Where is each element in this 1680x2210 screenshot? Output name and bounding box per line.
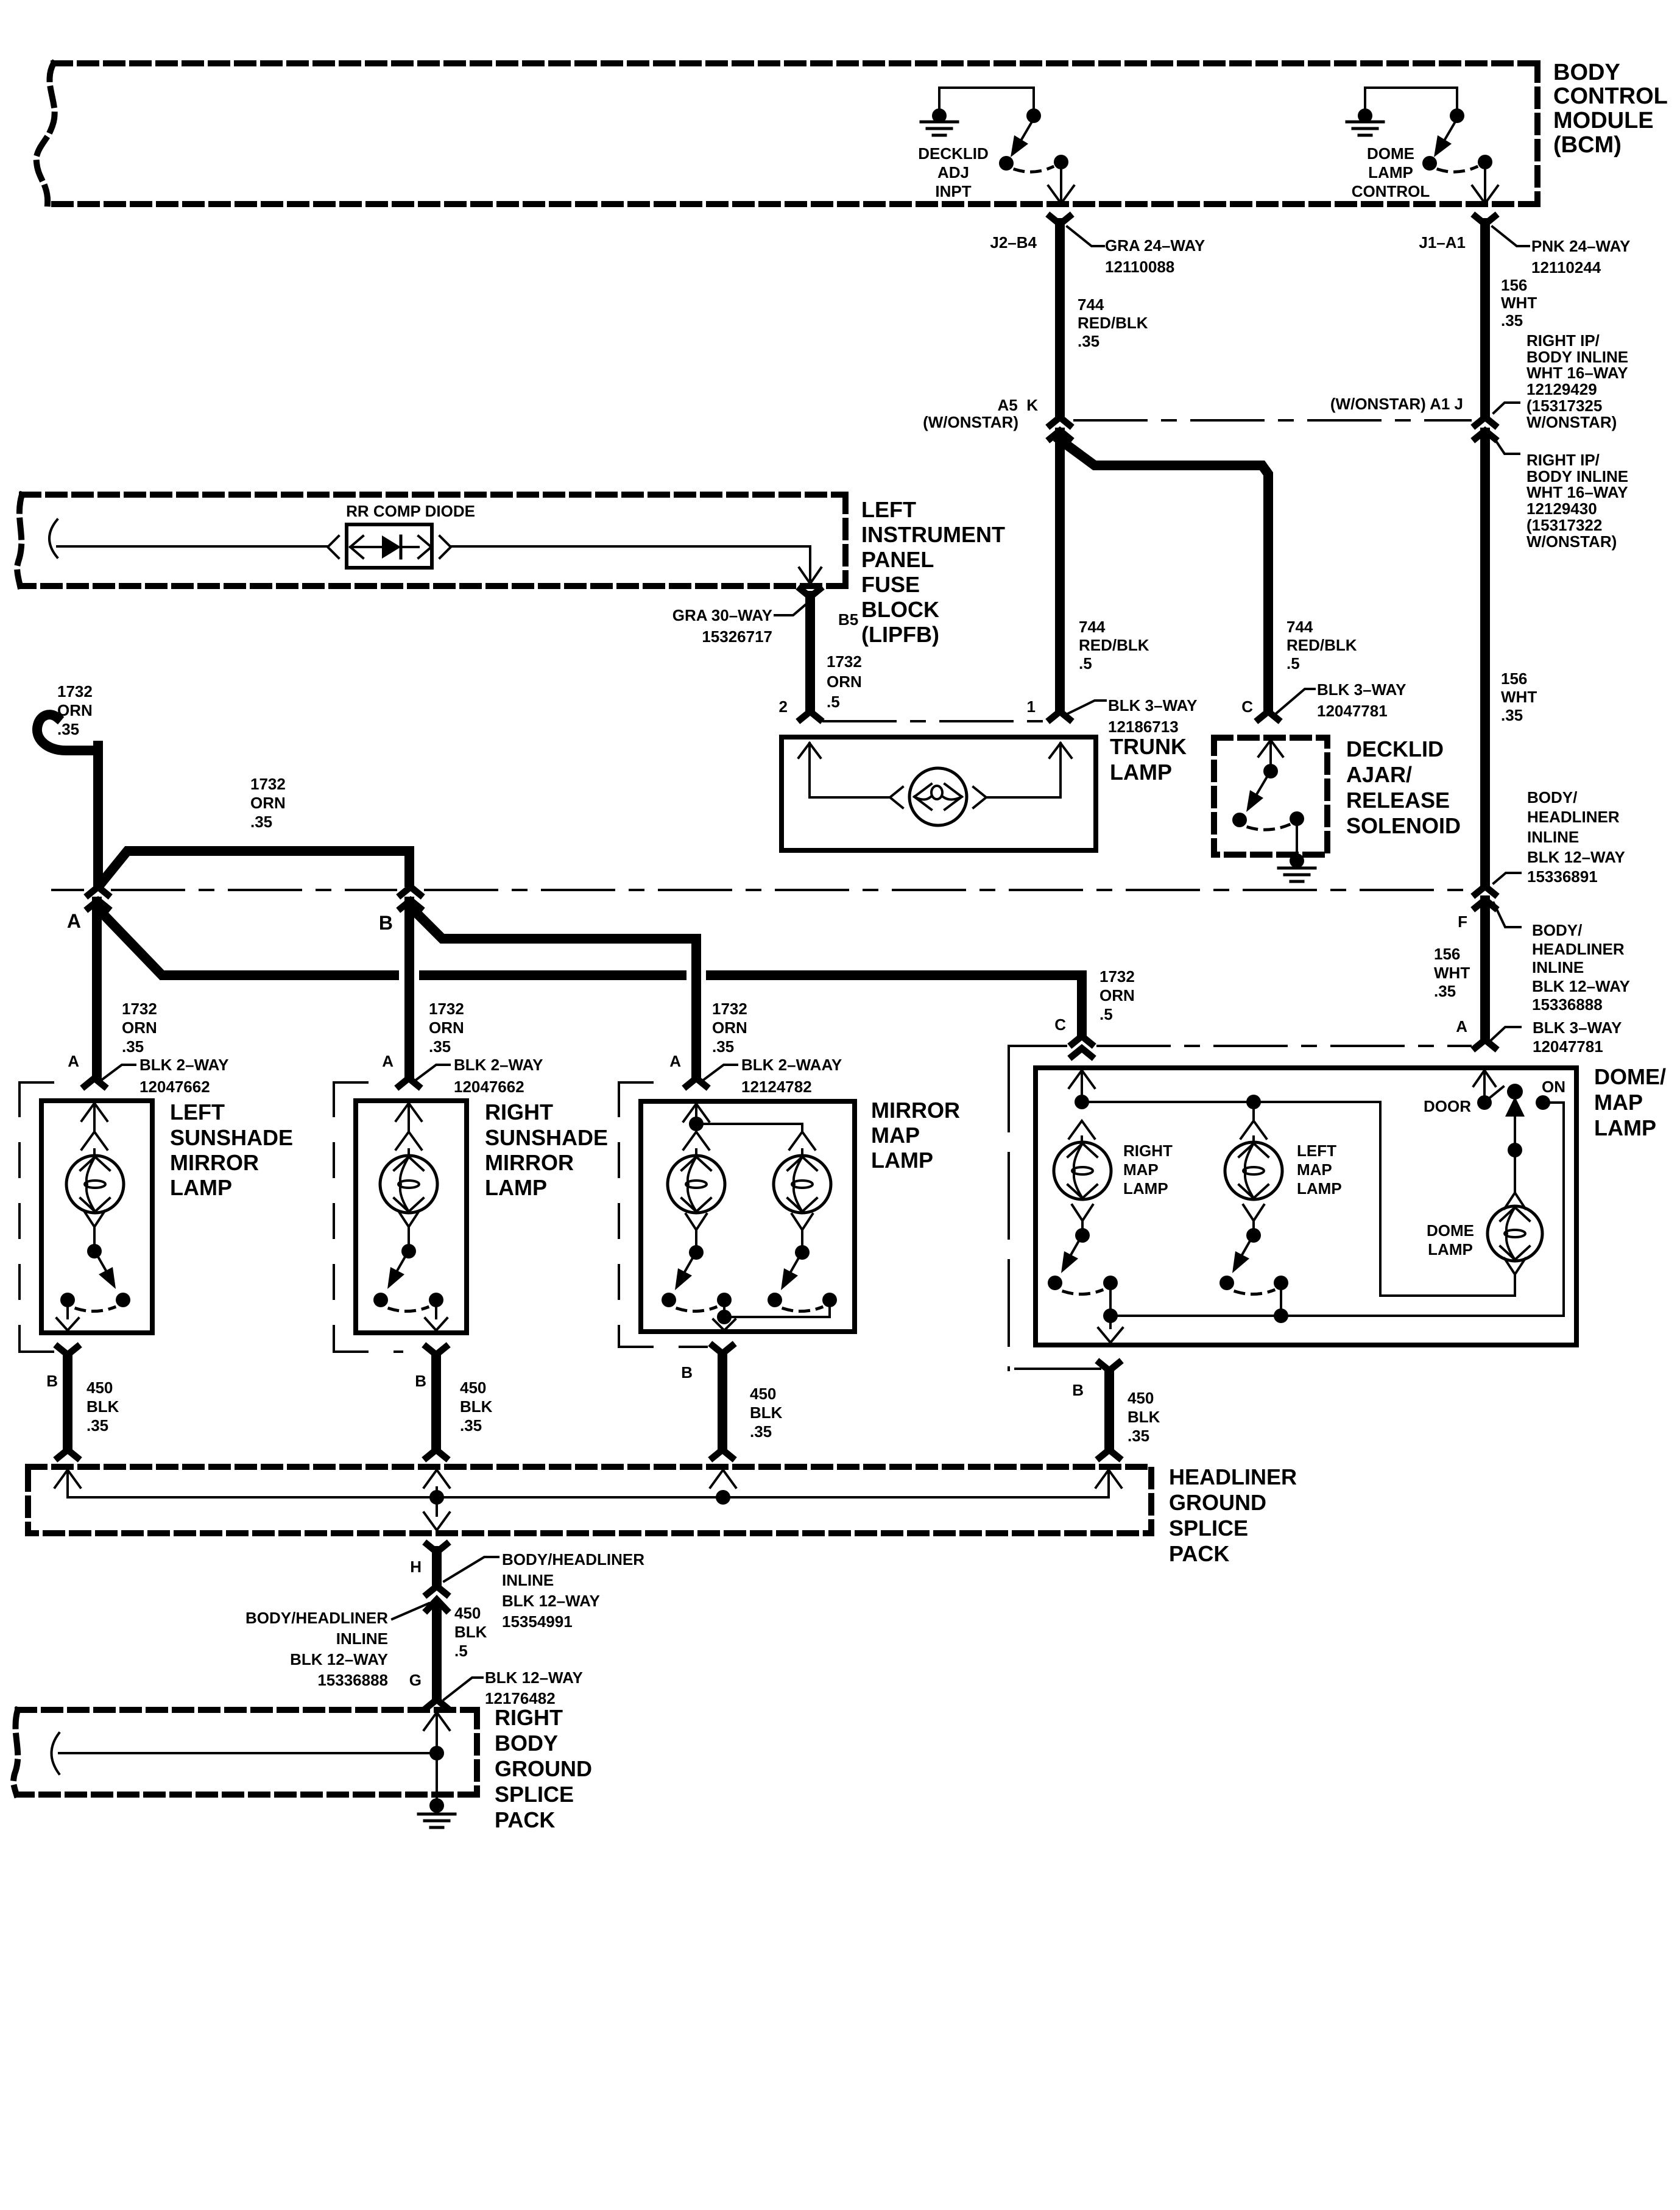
svg-text:WHT 16–WAY: WHT 16–WAY <box>1526 483 1628 501</box>
svg-text:12047781: 12047781 <box>1317 702 1388 720</box>
wire: internal ground bus <box>1110 1103 1564 1316</box>
svg-text:BLK 3–WAY: BLK 3–WAY <box>1317 680 1406 699</box>
pin arrow trunk lamp pin 1 <box>1050 743 1071 758</box>
svg-text:ORN: ORN <box>712 1019 747 1037</box>
phantom connector line at W/ONSTAR inline <box>1075 419 1470 422</box>
svg-text:.35: .35 <box>1434 982 1456 1000</box>
connector boundary (dome/map lamp, dashed bracket) <box>1008 1046 1010 1370</box>
svg-text:.35: .35 <box>86 1416 108 1435</box>
pin arrow down at LIPFB border <box>799 568 821 584</box>
svg-text:B5: B5 <box>838 610 858 629</box>
wire 744 RED/BLK .35 (J2-B4 down to inline) <box>1055 223 1065 416</box>
svg-text:.35: .35 <box>1501 706 1523 724</box>
svg-text:INLINE: INLINE <box>1532 958 1584 976</box>
wire inside LIPFB to RR COMP DIODE <box>57 545 328 548</box>
svg-text:GRA 24–WAY: GRA 24–WAY <box>1105 236 1205 255</box>
svg-text:A: A <box>67 910 81 932</box>
svg-text:TRUNK: TRUNK <box>1110 734 1187 759</box>
wire branch to decklid solenoid (744 RED/BLK .5) <box>1060 440 1268 710</box>
callout + label BLK 2-WAY 12047662 (left) <box>102 1065 135 1079</box>
lamp: RIGHT MAP LAMP bulb <box>1054 1142 1111 1199</box>
svg-text:.35: .35 <box>57 720 79 738</box>
inline break F at body/headliner inline <box>1475 886 1495 894</box>
svg-text:BLK 12–WAY: BLK 12–WAY <box>485 1668 583 1687</box>
svg-text:ORN: ORN <box>827 673 862 691</box>
svg-text:BLK 2–WAY: BLK 2–WAY <box>139 1056 228 1074</box>
svg-text:MIRROR: MIRROR <box>871 1098 960 1123</box>
svg-text:AJAR/: AJAR/ <box>1346 762 1412 787</box>
svg-text:.5: .5 <box>827 693 840 711</box>
svg-text:2: 2 <box>779 697 788 716</box>
svg-text:.5: .5 <box>1099 1005 1113 1023</box>
svg-text:WHT: WHT <box>1501 294 1537 312</box>
pin arrow into solenoid switch <box>1258 740 1283 757</box>
callout + label BLK 2-WAAY 12124782 <box>704 1065 737 1079</box>
svg-text:CONTROL: CONTROL <box>1352 182 1430 200</box>
module box: HEADLINER GROUND SPLICE PACK (dashed) <box>28 1467 1151 1533</box>
wire 450 BLK .35 (dome/map) <box>1104 1372 1114 1449</box>
svg-text:450: 450 <box>86 1379 113 1397</box>
wire from diode to LIPFB output B5 <box>451 546 810 580</box>
connector boundary (mirror map lamp, dashed bracket) <box>619 1081 679 1084</box>
svg-text:BLOCK: BLOCK <box>861 597 939 622</box>
svg-text:LAMP: LAMP <box>485 1175 547 1200</box>
svg-text:ORN: ORN <box>429 1019 464 1037</box>
wire: switch feed stub <box>1032 88 1035 111</box>
svg-text:MODULE: MODULE <box>1553 108 1654 133</box>
callout to BODY/HEADLINER 15354991 <box>444 1557 498 1581</box>
svg-text:(W/ONSTAR) A1 J: (W/ONSTAR) A1 J <box>1330 395 1463 413</box>
switch (left sunshade lamp) <box>84 1211 105 1227</box>
svg-text:W/ONSTAR): W/ONSTAR) <box>1526 413 1617 431</box>
switch 2 (mirror map lamp) <box>792 1214 813 1230</box>
wire stub curl (LIPFB feed) <box>49 520 57 557</box>
svg-text:A: A <box>68 1052 79 1070</box>
svg-text:LAMP: LAMP <box>1110 760 1172 785</box>
svg-text:.35: .35 <box>1128 1427 1149 1445</box>
wire 1732 ORN .35 down to inline A <box>93 746 103 884</box>
wire: dome lamp feed from selector <box>1514 1114 1516 1143</box>
callout line to PNK 24-WAY <box>1492 227 1529 246</box>
wire to lamp output B (right) <box>435 1307 437 1318</box>
svg-text:B: B <box>46 1372 58 1390</box>
svg-text:BLK 12–WAY: BLK 12–WAY <box>1532 977 1630 995</box>
svg-text:HEADLINER: HEADLINER <box>1169 1464 1297 1489</box>
connector J2-B4 break <box>1050 216 1070 224</box>
svg-text:GROUND: GROUND <box>495 1756 592 1781</box>
svg-text:.5: .5 <box>1079 654 1092 673</box>
svg-text:INLINE: INLINE <box>336 1629 388 1648</box>
svg-text:WHT 16–WAY: WHT 16–WAY <box>1526 364 1628 382</box>
svg-text:.5: .5 <box>454 1642 468 1660</box>
svg-text:RIGHT: RIGHT <box>1123 1142 1173 1160</box>
splice bus (headliner ground) <box>55 1470 80 1488</box>
svg-text:.35: .35 <box>1501 311 1523 330</box>
svg-text:SUNSHADE: SUNSHADE <box>485 1125 608 1150</box>
svg-text:1732: 1732 <box>827 652 862 671</box>
component box: MIRROR MAP LAMP <box>641 1101 855 1332</box>
svg-text:BODY: BODY <box>495 1731 558 1756</box>
svg-text:B: B <box>415 1372 426 1390</box>
svg-text:SUNSHADE: SUNSHADE <box>170 1125 293 1150</box>
break chevron right of trunk bulb <box>973 787 986 808</box>
svg-text:ORN: ORN <box>122 1019 157 1037</box>
svg-text:A5 K: A5 K <box>998 396 1039 414</box>
wire to ground <box>436 1753 438 1806</box>
svg-text:BLK 12–WAY: BLK 12–WAY <box>290 1650 388 1668</box>
wire: solenoid switch to ground <box>1296 826 1298 861</box>
svg-text:12047781: 12047781 <box>1533 1037 1603 1056</box>
inline break B <box>401 887 420 895</box>
diode D1: RR COMP DIODE <box>347 524 432 568</box>
pin arrows and feed (mirror map lamp) <box>683 1104 709 1121</box>
callout line GRA 30-WAY <box>775 605 805 615</box>
switch wiper arrow (DOME) <box>1445 122 1455 139</box>
svg-text:.35: .35 <box>712 1037 734 1056</box>
svg-text:PACK: PACK <box>1169 1541 1229 1566</box>
inline break (W/ONSTAR) A1 | J <box>1475 417 1495 425</box>
svg-text:744: 744 <box>1286 618 1313 636</box>
svg-text:BODY/HEADLINER: BODY/HEADLINER <box>245 1609 388 1627</box>
svg-text:1732: 1732 <box>1099 967 1135 986</box>
wire 156 WHT .35 (down to dome/map lamp pin A) <box>1480 900 1490 1039</box>
callout + label BLK 2-WAY 12047662 (right) <box>417 1065 450 1079</box>
break chevron left of trunk bulb <box>890 787 903 808</box>
svg-text:SPLICE: SPLICE <box>1169 1516 1248 1541</box>
svg-text:INLINE: INLINE <box>502 1571 554 1589</box>
svg-text:156: 156 <box>1434 945 1460 963</box>
component box: LEFT SUNSHADE MIRROR LAMP <box>41 1101 152 1333</box>
lamp: mirror map bulb 1 <box>668 1156 725 1213</box>
wire branch over to inline B <box>101 851 409 883</box>
callout to BODY/HEADLINER 15336891 <box>1494 873 1520 883</box>
wire hook: 1732 ORN continuation curl <box>37 715 98 750</box>
svg-text:RELEASE: RELEASE <box>1346 788 1450 813</box>
switch: DOME DOOR/ON selector <box>1474 1070 1495 1086</box>
pin arrow trunk lamp pin 2 <box>799 743 821 758</box>
break: mirror map lamp pin B <box>713 1346 732 1354</box>
svg-text:A: A <box>1456 1017 1467 1036</box>
module box: LEFT INSTRUMENT PANEL FUSE BLOCK (LIPFB), dashed outline <box>22 492 845 498</box>
pin arrows and feed (dome/map pin C) <box>1069 1070 1095 1088</box>
connector boundary (right sunshade lamp, dashed bracket) <box>334 1081 394 1084</box>
svg-text:ADJ: ADJ <box>937 163 969 182</box>
svg-text:LEFT: LEFT <box>170 1100 225 1124</box>
svg-text:C: C <box>1054 1015 1066 1034</box>
svg-text:1732: 1732 <box>712 1000 747 1018</box>
wire 156 WHT .35 (down to body/headliner inline) <box>1480 432 1490 884</box>
svg-text:BLK 2–WAY: BLK 2–WAY <box>454 1056 543 1074</box>
break: left sunshade lamp pin A <box>85 1078 104 1086</box>
svg-text:W/ONSTAR): W/ONSTAR) <box>1526 532 1617 551</box>
svg-text:H: H <box>410 1558 422 1576</box>
wire 450 BLK .35 (left) <box>63 1356 72 1449</box>
wire: switch outputs joined to pin B <box>723 1307 725 1317</box>
callout to BLK 12-WAY 12176482 <box>444 1678 482 1700</box>
wire: internal feed bus <box>1082 1102 1514 1296</box>
svg-text:HEADLINER: HEADLINER <box>1532 940 1625 958</box>
svg-text:.5: .5 <box>1286 654 1300 673</box>
svg-text:1732: 1732 <box>429 1000 464 1018</box>
svg-text:MAP: MAP <box>1594 1090 1643 1115</box>
svg-text:LAMP: LAMP <box>1594 1115 1656 1140</box>
svg-text:SPLICE: SPLICE <box>495 1782 574 1807</box>
wire from inline A down to left sunshade lamp <box>92 902 102 1077</box>
break: dome/map lamp pin B <box>1099 1363 1119 1371</box>
wire from inline B down to right sunshade lamp <box>404 902 414 1077</box>
svg-text:BODY: BODY <box>1553 60 1620 85</box>
svg-text:RIGHT: RIGHT <box>495 1705 563 1730</box>
svg-text:INPT: INPT <box>935 182 971 200</box>
svg-text:B: B <box>681 1363 693 1382</box>
splice bus (right body ground) <box>59 1752 437 1754</box>
svg-text:DOOR: DOOR <box>1424 1097 1471 1115</box>
svg-text:156: 156 <box>1501 276 1527 294</box>
dashed travel arc (mirror map 2) <box>783 1307 822 1312</box>
svg-text:RIGHT IP/: RIGHT IP/ <box>1526 451 1600 469</box>
svg-text:ORN: ORN <box>1099 986 1135 1004</box>
svg-text:SOLENOID: SOLENOID <box>1346 813 1461 838</box>
switch 1 (mirror map lamp) <box>686 1214 707 1230</box>
svg-text:450: 450 <box>1128 1389 1154 1407</box>
lamp: LEFT MAP LAMP bulb <box>1225 1142 1282 1199</box>
dashed travel arc (right map) <box>1064 1290 1102 1294</box>
lamp: DOME LAMP bulb <box>1488 1206 1542 1261</box>
svg-text:MIRROR: MIRROR <box>170 1150 259 1175</box>
wire inside trunk lamp (right) <box>986 743 1061 797</box>
component box: DOME/MAP LAMP <box>1036 1068 1576 1345</box>
switch: DOME LAMP CONTROL (inside BCM) <box>1365 86 1457 89</box>
wire: map switch outputs to ground bus <box>1109 1290 1112 1316</box>
break: mirror map lamp pin A <box>686 1078 706 1086</box>
wire 744 RED/BLK .5 (down to trunk lamp pin 1) <box>1055 432 1065 710</box>
wire 156 WHT .35 (J1-A1 down) <box>1480 223 1490 416</box>
dashed travel arc (DOME switch) <box>1438 167 1477 172</box>
switch: decklid ajar switch <box>1263 764 1278 778</box>
svg-text:BLK: BLK <box>454 1623 487 1641</box>
svg-text:MIRROR: MIRROR <box>485 1150 574 1175</box>
lamp: trunk lamp bulb <box>909 768 967 825</box>
callout line to GRA 24-WAY <box>1067 227 1104 246</box>
svg-text:(W/ONSTAR): (W/ONSTAR) <box>923 413 1018 431</box>
break: decklid solenoid pin C <box>1258 711 1278 719</box>
svg-text:CONTROL: CONTROL <box>1553 83 1668 109</box>
wire branch from B to mirror map lamp <box>411 908 696 1077</box>
svg-text:WHT: WHT <box>1501 688 1537 706</box>
svg-text:J2–B4: J2–B4 <box>990 233 1037 252</box>
svg-text:MAP: MAP <box>1297 1160 1332 1179</box>
wire: switch feed stub <box>1456 88 1458 111</box>
connector boundary (left sunshade lamp, dashed bracket) <box>19 1081 79 1084</box>
dashed travel arc (left map) <box>1235 1290 1274 1294</box>
svg-text:BLK: BLK <box>86 1397 119 1416</box>
svg-text:12129429: 12129429 <box>1526 380 1597 398</box>
svg-text:.35: .35 <box>750 1422 772 1441</box>
dashed travel arc (decklid ajar) <box>1248 825 1289 830</box>
ground (DOME LAMP CONTROL switch) <box>1347 121 1383 124</box>
module box: BODY CONTROL MODULE (BCM), dashed outline <box>54 60 1537 66</box>
break: trunk lamp pin 1 <box>1050 711 1070 719</box>
svg-text:J1–A1: J1–A1 <box>1419 233 1466 252</box>
svg-text:RED/BLK: RED/BLK <box>1079 636 1149 654</box>
break: dome/map lamp pin C <box>1072 1036 1092 1044</box>
break: trunk lamp pin 2 <box>800 711 820 719</box>
component box: DECKLID AJAR/RELEASE SOLENOID (dashed) <box>1214 738 1327 855</box>
wire 450 BLK .35 (mirror map) <box>718 1355 727 1449</box>
pin arrows (left sunshade lamp) <box>82 1103 107 1121</box>
svg-text:HEADLINER: HEADLINER <box>1527 808 1620 826</box>
svg-text:BLK 12–WAY: BLK 12–WAY <box>1527 848 1625 866</box>
callout to BLK 3-WAY 12047781 <box>1276 689 1315 714</box>
break: right sunshade lamp pin B <box>426 1347 446 1355</box>
svg-text:BLK 2–WAAY: BLK 2–WAAY <box>741 1056 842 1074</box>
svg-text:RIGHT IP/: RIGHT IP/ <box>1526 331 1600 350</box>
wire 450 BLK .35 (right) <box>431 1356 441 1449</box>
break chevron right of diode <box>440 536 451 558</box>
svg-text:15336888: 15336888 <box>1532 995 1603 1014</box>
svg-text:LAMP: LAMP <box>1123 1179 1168 1198</box>
svg-text:LAMP: LAMP <box>170 1175 232 1200</box>
switch (left map lamp) <box>1243 1205 1264 1221</box>
wire: internal feed to second bulb <box>696 1124 802 1132</box>
svg-text:450: 450 <box>460 1379 486 1397</box>
svg-text:RED/BLK: RED/BLK <box>1078 314 1148 332</box>
switch (right sunshade lamp) <box>398 1211 419 1227</box>
switch wiper arrow (DECKLID) <box>1022 122 1032 139</box>
svg-text:DECKLID: DECKLID <box>918 144 989 163</box>
svg-text:1732: 1732 <box>57 682 93 701</box>
svg-text:(BCM): (BCM) <box>1553 132 1622 158</box>
phantom line at dome/map connector <box>1011 1045 1066 1047</box>
callout to BODY/HEADLINER 15336888 (right) <box>1494 903 1520 927</box>
svg-text:.35: .35 <box>1078 332 1099 350</box>
svg-text:.35: .35 <box>429 1037 451 1056</box>
svg-text:450: 450 <box>454 1604 481 1622</box>
callout to BLK 3-WAY 12186713 <box>1067 701 1106 714</box>
callout to RIGHT IP 12129429 <box>1494 403 1519 413</box>
svg-text:.35: .35 <box>122 1037 144 1056</box>
svg-text:.35: .35 <box>250 813 272 831</box>
svg-text:15336888: 15336888 <box>317 1671 388 1689</box>
svg-text:WHT: WHT <box>1434 964 1470 982</box>
dashed travel arc (left sunshade) <box>76 1307 115 1312</box>
svg-text:PNK 24–WAY: PNK 24–WAY <box>1531 237 1630 255</box>
svg-text:12047662: 12047662 <box>139 1078 210 1096</box>
svg-text:12186713: 12186713 <box>1108 718 1179 736</box>
svg-text:(15317322: (15317322 <box>1526 516 1602 534</box>
svg-text:BODY/: BODY/ <box>1527 788 1577 807</box>
svg-text:DOME: DOME <box>1427 1221 1474 1240</box>
svg-text:RR COMP DIODE: RR COMP DIODE <box>346 502 475 520</box>
dashed travel arc (DECKLID switch) <box>1015 167 1053 172</box>
svg-text:450: 450 <box>750 1385 776 1403</box>
wire: dome lamp return <box>1505 1259 1525 1274</box>
svg-text:1732: 1732 <box>250 775 286 793</box>
connector J1-A1 break <box>1475 216 1495 224</box>
module box: RIGHT BODY GROUND SPLICE PACK (dashed) <box>18 1707 477 1713</box>
wire 1732 ORN .5 (B5 to trunk lamp pin 2) <box>805 596 815 710</box>
connector break B5 top <box>800 589 820 597</box>
ground (right body ground splice pack) <box>418 1813 455 1816</box>
switch (right map lamp) <box>1072 1205 1093 1221</box>
svg-text:(15317325: (15317325 <box>1526 397 1602 415</box>
svg-text:12124782: 12124782 <box>741 1078 812 1096</box>
svg-text:LAMP: LAMP <box>1368 163 1413 182</box>
svg-text:BLK 3–WAY: BLK 3–WAY <box>1533 1019 1622 1037</box>
svg-text:.35: .35 <box>460 1416 482 1435</box>
inline break A5 | K <box>1050 417 1070 425</box>
svg-text:BLK 12–WAY: BLK 12–WAY <box>502 1592 600 1610</box>
break: dome/map lamp pin A <box>1475 1040 1495 1048</box>
pin arrows (right sunshade lamp) <box>396 1103 422 1121</box>
svg-text:B: B <box>1072 1381 1084 1399</box>
svg-text:ORN: ORN <box>57 701 93 719</box>
svg-text:INLINE: INLINE <box>1527 828 1579 846</box>
svg-text:A: A <box>669 1052 681 1070</box>
callout to BLK 3-WAY 12047781 (dome) <box>1488 1027 1520 1043</box>
svg-text:ON: ON <box>1542 1078 1565 1096</box>
break: left sunshade lamp pin B <box>58 1347 77 1355</box>
svg-text:15326717: 15326717 <box>702 627 772 646</box>
svg-text:15336891: 15336891 <box>1527 867 1598 886</box>
svg-text:BLK: BLK <box>460 1397 493 1416</box>
svg-text:BODY/HEADLINER: BODY/HEADLINER <box>502 1550 644 1569</box>
phantom line: body/headliner inline connector <box>52 889 83 891</box>
lamp: mirror map bulb 2 <box>774 1156 831 1213</box>
svg-text:DOME/: DOME/ <box>1594 1064 1666 1089</box>
wire: pin B exit (dome/map) <box>1109 1316 1112 1328</box>
break chevron left of diode <box>328 536 339 558</box>
component box: TRUNK LAMP <box>782 737 1096 850</box>
callout to RIGHT IP 12129430 <box>1494 437 1519 454</box>
svg-text:12110244: 12110244 <box>1531 258 1601 277</box>
svg-text:ORN: ORN <box>250 794 286 812</box>
svg-text:12047662: 12047662 <box>454 1078 524 1096</box>
svg-text:(LIPFB): (LIPFB) <box>861 622 939 647</box>
svg-text:GROUND: GROUND <box>1169 1490 1266 1515</box>
ground (decklid ajar/release solenoid) <box>1279 867 1315 870</box>
wire to lamp output B <box>66 1307 69 1318</box>
svg-text:12129430: 12129430 <box>1526 500 1597 518</box>
wire inside trunk lamp (left) <box>810 743 889 797</box>
svg-text:B: B <box>379 912 393 934</box>
svg-text:744: 744 <box>1078 295 1104 314</box>
wire stub curl (right body ground feed) <box>52 1733 60 1774</box>
svg-text:LAMP: LAMP <box>1297 1179 1342 1198</box>
svg-text:DECKLID: DECKLID <box>1346 736 1444 761</box>
svg-text:LEFT: LEFT <box>1297 1142 1336 1160</box>
component box: RIGHT SUNSHADE MIRROR LAMP <box>356 1101 467 1333</box>
svg-text:1: 1 <box>1027 697 1036 716</box>
svg-text:MAP: MAP <box>871 1123 920 1148</box>
wire 450 BLK .5 (H to G) <box>427 1600 446 1610</box>
svg-text:PACK: PACK <box>495 1807 555 1832</box>
dashed travel arc (right sunshade) <box>389 1307 428 1312</box>
svg-text:INSTRUMENT: INSTRUMENT <box>861 522 1005 547</box>
svg-text:FUSE: FUSE <box>861 572 920 597</box>
svg-text:LAMP: LAMP <box>1428 1240 1473 1259</box>
svg-text:F: F <box>1458 913 1467 931</box>
svg-text:RED/BLK: RED/BLK <box>1286 636 1357 654</box>
svg-text:MAP: MAP <box>1123 1160 1159 1179</box>
wire: DECKLID switch output to BCM border <box>1060 169 1062 201</box>
svg-text:GRA 30–WAY: GRA 30–WAY <box>672 606 772 624</box>
svg-text:C: C <box>1241 697 1253 716</box>
feed drop to left map bulb <box>1252 1102 1255 1121</box>
svg-text:BLK 3–WAY: BLK 3–WAY <box>1108 696 1197 715</box>
callout from BODY/HEADLINER 15336888 (left) <box>392 1603 429 1619</box>
svg-text:LAMP: LAMP <box>871 1148 933 1173</box>
